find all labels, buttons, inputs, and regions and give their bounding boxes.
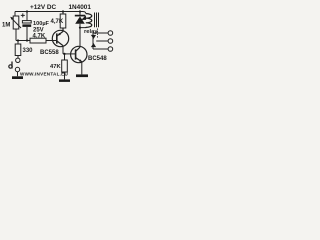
svg-text:+12V DC: +12V DC bbox=[30, 4, 56, 11]
svg-text:4,7K: 4,7K bbox=[51, 19, 64, 25]
svg-text:1N4001: 1N4001 bbox=[69, 4, 92, 11]
svg-text:330: 330 bbox=[23, 48, 34, 54]
svg-text:1M: 1M bbox=[2, 23, 10, 29]
svg-text:WWW.INVENTAL.EU: WWW.INVENTAL.EU bbox=[20, 71, 68, 76]
svg-text:BC558: BC558 bbox=[40, 50, 59, 56]
svg-text:4.7K: 4.7K bbox=[33, 34, 46, 40]
svg-text:100µF: 100µF bbox=[33, 21, 50, 27]
svg-text:relay: relay bbox=[84, 29, 98, 35]
svg-text:47K: 47K bbox=[50, 64, 61, 70]
svg-text:BC548: BC548 bbox=[88, 56, 107, 62]
